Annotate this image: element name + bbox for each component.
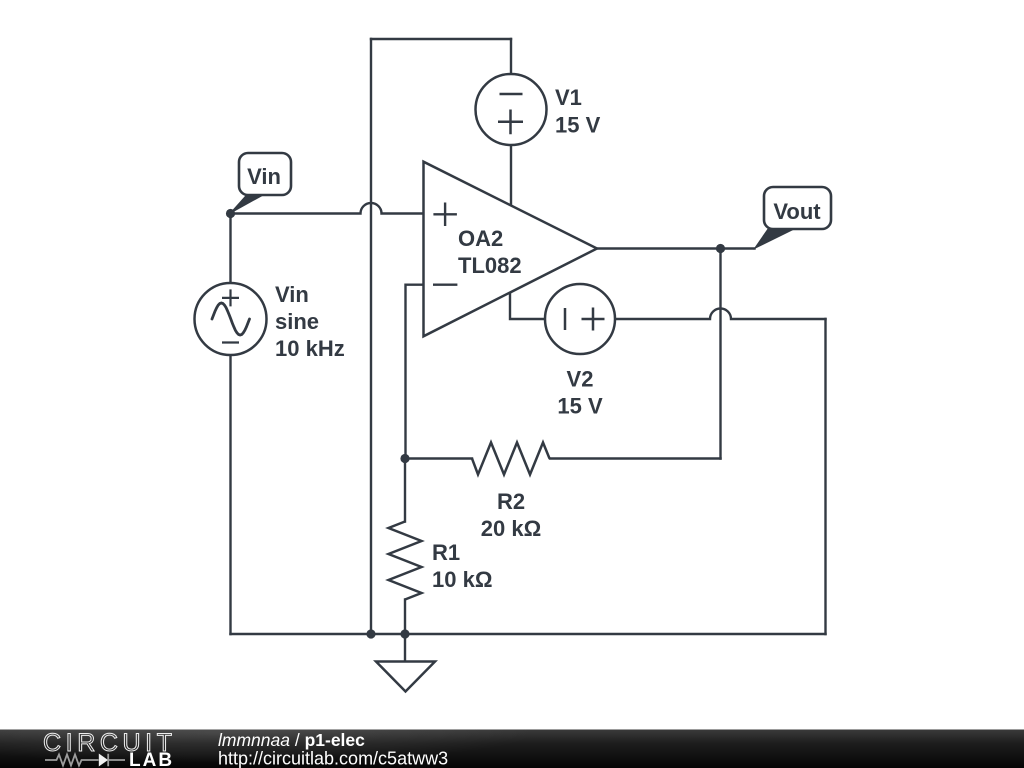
V1 minus sign (500, 93, 523, 96)
svg-text:15 V: 15 V (555, 113, 601, 138)
wire V1 top lead (510, 39, 512, 74)
svg-text:OA2: OA2 (458, 226, 503, 251)
V1 value label (555, 85, 601, 138)
resistor R1 zigzag (389, 522, 422, 600)
wire left vertical rail x=371 (370, 39, 372, 634)
svg-text:V2: V2 (567, 367, 594, 392)
wire top horizontal (V1 minus to left rail) (371, 38, 511, 40)
node Vout flag (755, 187, 832, 249)
R2 value label (481, 489, 541, 541)
junction dot at Vin node (226, 209, 235, 218)
junction dot at feedback node (400, 454, 409, 463)
wire feedback vertical from output node down to R2 (719, 249, 721, 459)
wire R2 right lead (550, 457, 721, 459)
wire R1 top lead (404, 459, 406, 522)
CircuitLab logo diode triangle (99, 754, 108, 767)
wire right vertical rail x=825.5 (824, 319, 826, 634)
V2 value label (557, 367, 603, 419)
svg-text:lmmnnaa / p1-elec: lmmnnaa / p1-elec (218, 730, 365, 750)
svg-text:Vout: Vout (773, 199, 821, 224)
svg-text:Vin: Vin (247, 164, 281, 189)
wire bottom rail (231, 633, 826, 635)
junction dot at left rail / bottom rail (366, 629, 375, 638)
wire op-amp V- pin to V2 minus (510, 293, 545, 320)
ground symbol (376, 662, 435, 692)
svg-text:15 V: 15 V (557, 394, 603, 419)
resistor R2 zigzag (472, 443, 550, 475)
V2 plus sign (582, 308, 605, 331)
junction dot at output node (716, 244, 725, 253)
Vin source plus sign (222, 289, 239, 306)
node Vin flag (231, 153, 292, 213)
op-amp label OA2 TL082 (458, 226, 522, 278)
V1 plus sign (498, 110, 523, 135)
svg-text:10 kΩ: 10 kΩ (432, 567, 492, 592)
footer bar (0, 730, 1024, 768)
svg-text:Vin: Vin (275, 282, 309, 307)
svg-text:TL082: TL082 (458, 253, 522, 278)
R1 value label (432, 540, 492, 592)
svg-text:R2: R2 (497, 489, 525, 514)
svg-text:sine: sine (275, 309, 319, 334)
Vin source minus sign (222, 341, 239, 343)
op-amp minus input symbol (433, 284, 457, 286)
wire inverting input stub down to feedback node (406, 285, 424, 459)
voltage source V1 (476, 74, 547, 145)
sine voltage source Vin (195, 283, 267, 355)
Vin source sine wave (212, 303, 250, 335)
wire R2 left lead (405, 457, 472, 459)
wire Vin source bottom lead (229, 355, 231, 634)
svg-text:10 kHz: 10 kHz (275, 336, 345, 361)
svg-text:20 kΩ: 20 kΩ (481, 516, 541, 541)
junction dot at R1 / bottom rail (400, 629, 409, 638)
op-amp plus input symbol (433, 203, 457, 227)
svg-text:http://circuitlab.com/c5atww3: http://circuitlab.com/c5atww3 (218, 749, 448, 768)
op-amp U1 OA2 triangle (424, 162, 598, 337)
wire op-amp output to Vout (597, 247, 755, 249)
voltage source V2 (545, 284, 615, 354)
wire V1 bottom lead to op-amp V+ pin (510, 145, 512, 206)
V2 minus sign (rotated) (564, 308, 567, 330)
wire noninverting input with hop over left rail (231, 203, 424, 214)
Vin source value label (275, 282, 345, 361)
svg-text:V1: V1 (555, 85, 582, 110)
wire R1 bottom lead (404, 600, 406, 635)
svg-text:LAB: LAB (129, 750, 174, 768)
svg-text:R1: R1 (432, 540, 460, 565)
wire V2 plus to right rail with hop over feedback wire (615, 309, 826, 320)
wire Vin source top lead (229, 214, 231, 284)
wire ground stub (404, 634, 406, 661)
CircuitLab logo resistor-diode glyph (45, 754, 125, 767)
